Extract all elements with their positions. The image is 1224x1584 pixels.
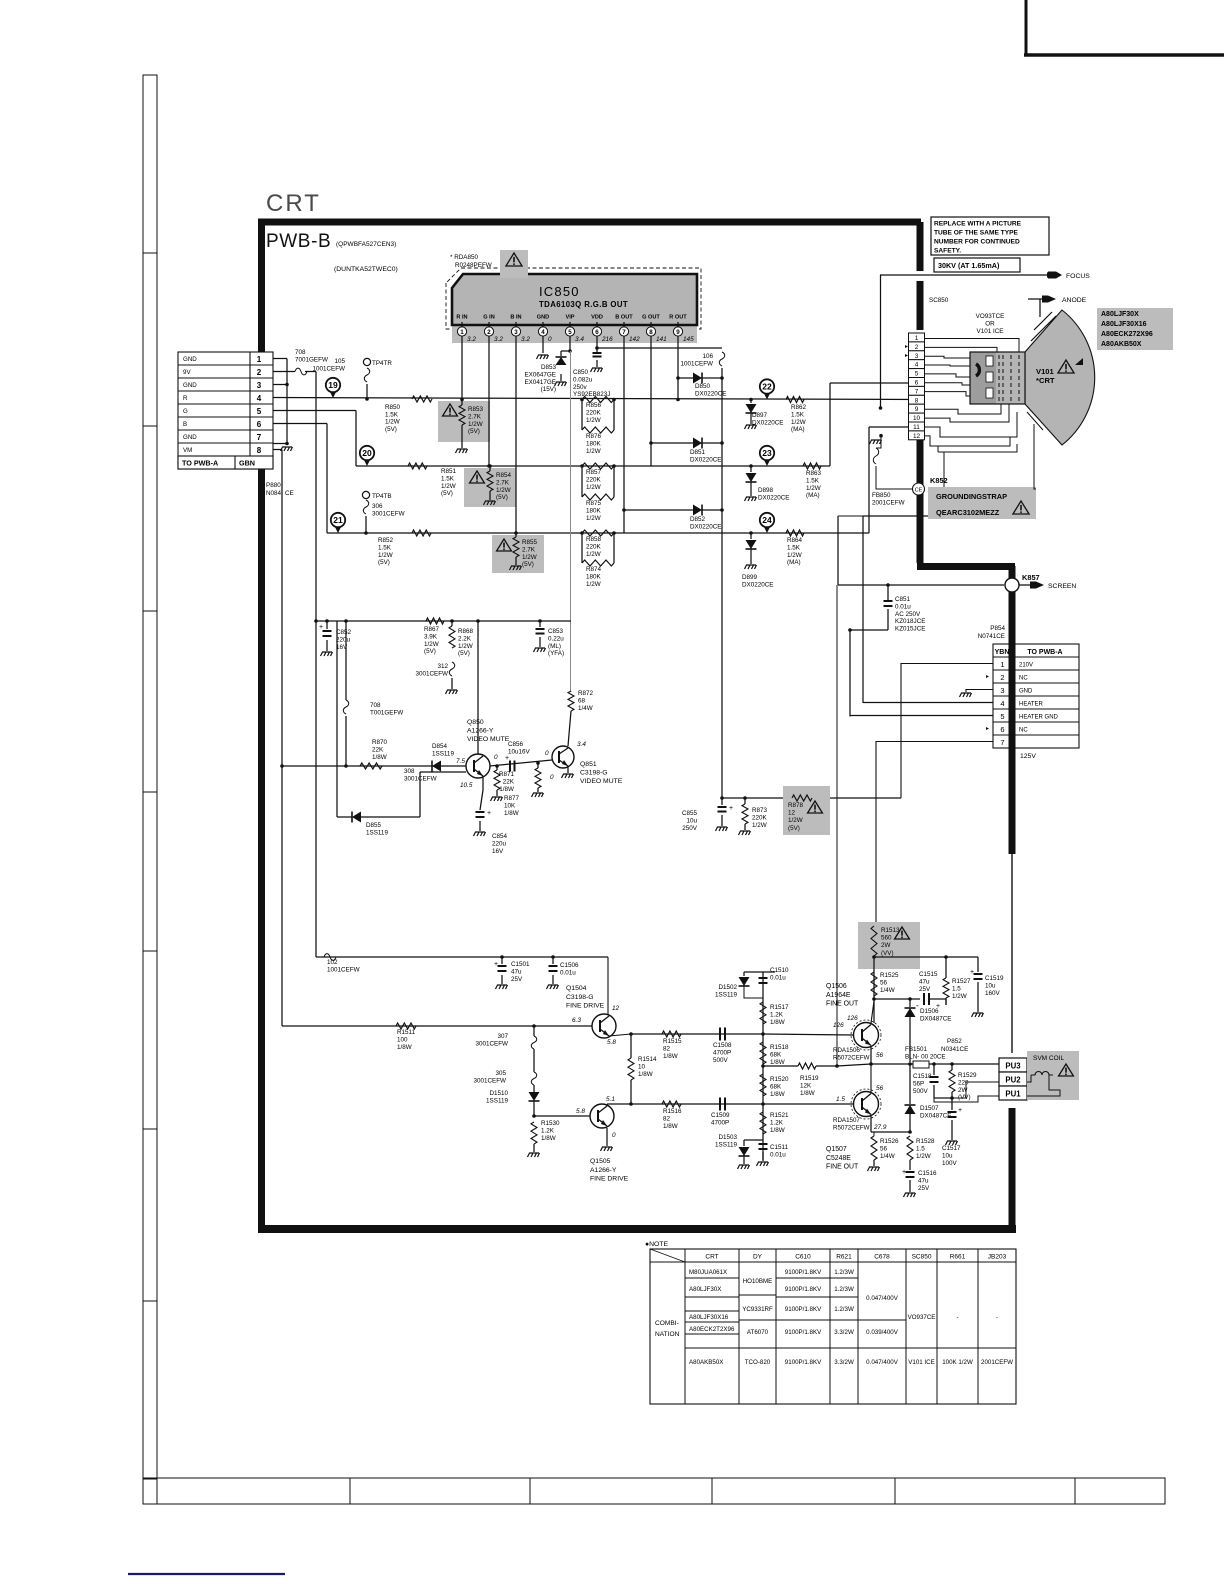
svg-text:TDA6103Q R.G.B OUT: TDA6103Q R.G.B OUT [539,300,628,309]
svg-text:TCO-820: TCO-820 [745,1359,771,1366]
wire B signal line [273,423,327,425]
svg-text:1/2W: 1/2W [586,448,601,455]
diode D899 to ground [749,531,753,535]
svg-text:2W: 2W [881,942,891,949]
svg-text:GBN: GBN [239,459,255,468]
svg-text:(15V): (15V) [541,386,556,393]
svg-text:1/2W: 1/2W [752,822,767,829]
svg-text:R1521: R1521 [770,1112,789,1119]
svg-text:D897: D897 [752,412,768,419]
svg-text:0.01u: 0.01u [770,1152,786,1159]
svg-text:24: 24 [762,515,772,525]
svg-text:3.3/2W: 3.3/2W [834,1329,854,1336]
svg-text:1/8W: 1/8W [638,1071,653,1078]
svg-text:1: 1 [257,355,262,364]
svg-text:(MA): (MA) [806,492,820,499]
svg-text:560: 560 [881,935,892,942]
svg-text:0.01u: 0.01u [560,969,576,976]
wire Q1504 emitter junction [609,1034,631,1036]
diode D851 [651,442,693,444]
svg-text:A80AKB50X: A80AKB50X [689,1359,723,1366]
svg-text:COMBI-: COMBI- [655,1320,679,1327]
svg-text:-: - [996,1314,998,1321]
wire 9V pin2 with jumper 708 [273,371,295,373]
connector P-A 8-pin table [178,352,273,469]
svg-text:A80ECK272X96: A80ECK272X96 [1101,331,1153,338]
svg-text:1/2W: 1/2W [441,483,456,490]
svg-text:3.4: 3.4 [575,336,584,343]
wire 9V rail y957 [316,956,608,958]
svg-text:NUMBER FOR CONTINUED: NUMBER FOR CONTINUED [934,239,1020,246]
svg-text:(5V): (5V) [378,559,390,566]
svg-text:220K: 220K [586,476,602,483]
svg-text:+: + [902,1169,906,1176]
svg-text:R1530: R1530 [541,1120,560,1127]
svg-text:C851: C851 [895,596,911,603]
svg-text:D1507: D1507 [920,1105,939,1112]
svg-text:10K: 10K [504,802,516,809]
svg-text:GND: GND [183,382,197,389]
svg-text:R871: R871 [499,771,515,778]
resistor R1513 caution box [858,922,920,969]
anode hatch marks [1034,312,1052,330]
svg-text:3.2: 3.2 [494,336,503,343]
svg-text:5: 5 [568,329,572,336]
wire IC pin1 R IN [461,340,463,400]
svg-text:180K: 180K [586,440,602,447]
svg-text:(MA): (MA) [791,426,805,433]
resistor R1525 [871,972,877,996]
svg-text:C3198-G: C3198-G [580,770,608,777]
svg-text:1/2W: 1/2W [791,419,806,426]
jumper 102 [324,954,336,961]
IC850 body [452,325,697,343]
svg-text:0.039/400V: 0.039/400V [866,1329,899,1336]
svg-text:* RDA850: * RDA850 [450,254,478,261]
svg-text:1/2W: 1/2W [586,417,601,424]
svg-text:10u: 10u [686,817,697,824]
svg-text:1/8W: 1/8W [663,1053,678,1060]
svg-text:25V: 25V [511,976,523,983]
text box 30KV [934,258,1020,272]
svg-text:125V: 125V [1020,753,1036,760]
svg-text:D852: D852 [690,516,706,523]
wire IC pin6 VDD [596,340,598,348]
resistor R1518 [760,1042,766,1064]
ground near strip [870,440,882,444]
svg-text:3: 3 [1000,686,1004,695]
svg-text:R IN: R IN [456,315,467,321]
svg-text:7: 7 [915,388,919,395]
svg-text:11: 11 [913,424,920,431]
resistor R1528 [907,1136,913,1160]
capacitor C850 [596,348,598,352]
wire Q851 emitter ground [567,767,569,773]
svg-text:A80ECK2T2X96: A80ECK2T2X96 [689,1326,735,1333]
wire bias bus [762,972,764,1160]
resistor R1511 [396,1023,416,1029]
wire SVM hookup [1027,1075,1031,1082]
capacitor C1515 [874,998,920,1000]
diode D1503 and C1511 [744,1139,763,1141]
note table row rules [685,1277,739,1279]
connector P854 YBN table [993,644,1079,748]
svg-text:(QPWBFA527CEN3): (QPWBFA527CEN3) [336,241,396,248]
svg-text:56: 56 [880,979,888,986]
svg-text:3001CEFW: 3001CEFW [473,1078,506,1085]
svg-text:HO10BME: HO10BME [743,1278,773,1285]
ferrite bead FB1501 [913,1061,929,1068]
svg-text:N084: N084 [266,490,282,497]
wire drive line B y1104 [607,1103,763,1105]
svg-text:R870: R870 [372,739,388,746]
svg-text:+: + [970,969,974,976]
svg-text:220K: 220K [586,409,602,416]
svg-text:250V: 250V [682,825,698,832]
svg-text:G IN: G IN [483,315,495,321]
svg-text:SC850: SC850 [929,297,949,304]
svg-text:1/8W: 1/8W [499,786,514,793]
svg-text:R877: R877 [504,795,520,802]
svg-text:FINE DRIVE: FINE DRIVE [566,1003,605,1010]
svg-text:V101 ICE: V101 ICE [977,328,1004,335]
svg-text:R661: R661 [950,1254,966,1261]
diode D1510 [533,1085,535,1092]
svg-text:(VV): (VV) [881,950,894,957]
svg-text:56: 56 [876,1085,884,1092]
svg-text:V101 ICE: V101 ICE [908,1359,934,1366]
svg-text:R857: R857 [586,469,602,476]
svg-text:0.047/400V: 0.047/400V [866,1295,899,1302]
svg-text:●NOTE: ●NOTE [645,1241,668,1248]
IC850 pins 1-9 [461,322,463,327]
wire socket nest [924,339,1020,353]
svg-text:R1525: R1525 [880,972,899,979]
svg-text:2: 2 [1000,673,1004,682]
capacitor C1506 [552,957,554,964]
capacitor C853 [539,621,541,627]
wire Q1505 emitter ground [606,1128,608,1146]
svg-text:7: 7 [622,329,626,336]
svg-text:10: 10 [638,1063,646,1070]
svg-text:1/8W: 1/8W [504,810,519,817]
svg-text:250v: 250v [573,384,588,391]
wire Q850 emitter to C854 [482,776,484,790]
svg-text:7: 7 [1000,738,1004,747]
svg-text:(5V): (5V) [788,825,800,832]
jumper 307 [533,1026,535,1036]
svg-text:3.2: 3.2 [521,336,530,343]
svg-text:K857: K857 [1022,573,1040,582]
svg-text:12K: 12K [800,1082,812,1089]
svg-text:C678: C678 [874,1254,890,1261]
node 19 flag [329,390,337,398]
svg-text:68K: 68K [770,1051,782,1058]
svg-text:0: 0 [548,336,552,343]
svg-text:M80JUA061X: M80JUA061X [689,1269,727,1276]
node 20 flag [363,458,371,466]
svg-text:1.5: 1.5 [836,1096,845,1103]
svg-text:5: 5 [1000,712,1004,721]
svg-text:2.7K: 2.7K [522,546,536,553]
svg-text:2.7K: 2.7K [496,479,510,486]
svg-text:216: 216 [601,336,613,343]
wire riser to screen grid [836,585,838,1066]
svg-text:R862: R862 [791,404,807,411]
arrows at rows 2,6 [986,675,989,678]
CRT socket [970,352,1025,404]
svg-text:GND: GND [537,315,549,321]
svg-text:1.2K: 1.2K [541,1127,555,1134]
diode D850 [678,377,693,379]
svg-text:1SS119: 1SS119 [715,992,737,999]
CRT V101 funnel [1025,310,1095,445]
svg-text:D1510: D1510 [489,1090,508,1097]
svg-text:1.5K: 1.5K [791,411,805,418]
svg-text:(YFA): (YFA) [548,650,564,657]
svg-text:K852: K852 [930,476,948,485]
svg-text:9: 9 [676,329,680,336]
svg-text:R1517: R1517 [770,1004,789,1011]
svg-text:RDA1507: RDA1507 [833,1117,860,1124]
svg-text:102: 102 [327,959,338,966]
svg-text:A1266-Y: A1266-Y [590,1167,617,1174]
svg-text:FINE OUT: FINE OUT [826,1164,859,1171]
svg-text:EX0647GE: EX0647GE [524,371,556,378]
svg-text:A80AKB50X: A80AKB50X [1101,341,1142,348]
svg-text:C856: C856 [508,741,524,748]
warning triangle V101 [1058,360,1074,373]
svg-text:23: 23 [762,448,772,458]
svg-text:82: 82 [663,1115,671,1122]
svg-text:+: + [319,624,323,631]
svg-text:A80LJF30X: A80LJF30X [689,1286,721,1293]
svg-text:12: 12 [612,1005,620,1012]
svg-text:0: 0 [494,754,498,761]
wire Q1506 collector [871,1001,874,1023]
svg-text:3001CEFW: 3001CEFW [415,671,448,678]
svg-text:(MA): (MA) [787,559,801,566]
page: bottom revision bar [143,1478,1165,1504]
svg-text:DX0220CE: DX0220CE [690,457,722,464]
svg-text:GND: GND [183,434,197,441]
svg-text:1/4W: 1/4W [880,1153,895,1160]
jumper FB850 to CE [879,434,883,438]
svg-text:TUBE OF THE SAME TYPE: TUBE OF THE SAME TYPE [934,230,1018,237]
IC850 dashed outline [446,268,701,329]
capacitor C1518 [933,1064,935,1075]
svg-text:4: 4 [257,394,262,403]
wire G signal line [273,410,356,412]
svg-text:NATION: NATION [655,1331,680,1338]
svg-text:R1528: R1528 [916,1138,935,1145]
svg-text:YC9331RF: YC9331RF [742,1306,773,1313]
svg-text:0.01u: 0.01u [770,975,786,982]
resistor R1529 [951,1064,953,1070]
wire IC pin8 G OUT [650,340,652,466]
svg-text:1/2W: 1/2W [424,641,439,648]
ground [484,501,496,505]
svg-text:308: 308 [404,768,415,775]
svg-text:7001GEFW: 7001GEFW [295,357,328,364]
svg-text:2: 2 [257,368,262,377]
svg-text:FB1501: FB1501 [905,1046,928,1053]
svg-text:47u: 47u [918,1177,929,1184]
svg-text:22: 22 [762,382,772,392]
svg-text:4: 4 [1000,699,1004,708]
resistor R867 [426,618,444,624]
node 24 flag [763,525,771,533]
svg-text:TO PWB-A: TO PWB-A [1027,649,1062,656]
svg-text:A1964E: A1964E [826,992,851,999]
svg-text:9100P/1.8KV: 9100P/1.8KV [785,1286,822,1293]
svg-text:Q1507: Q1507 [826,1146,847,1153]
svg-text:EX0417GE: EX0417GE [524,379,556,386]
svg-text:KZ015JCE: KZ015JCE [895,626,925,633]
svg-text:1/2W: 1/2W [522,554,537,561]
svg-text:220u: 220u [492,840,507,847]
svg-text:1001CEFW: 1001CEFW [680,361,713,368]
svg-text:R852: R852 [378,537,394,544]
svg-text:5.8: 5.8 [607,1039,616,1046]
wire row3 GND stub [966,690,993,693]
svg-text:R858: R858 [586,536,602,543]
capacitor C1509 [719,1098,721,1111]
test point TP4TR [363,358,370,365]
resistor R854 with caution box [464,468,516,507]
svg-text:16V: 16V [492,848,504,855]
svg-text:1.2K: 1.2K [770,1119,784,1126]
transistor Q1505 fine drive [590,1104,614,1128]
resistor R872 [570,690,572,693]
wire 9V rail y621 [316,620,571,622]
svg-text:56: 56 [876,1052,884,1059]
svg-text:C853: C853 [548,628,564,635]
svg-text:SCREEN: SCREEN [1048,583,1076,590]
wire GND bus pins 1,3,7 [273,358,287,360]
svg-text:R868: R868 [458,628,474,635]
resistor R871 [537,763,539,768]
svg-text:1.5K: 1.5K [385,411,399,418]
svg-text:1.5K: 1.5K [787,544,801,551]
diode D897 to ground [749,398,753,402]
svg-text:9100P/1.8KV: 9100P/1.8KV [785,1306,822,1313]
svg-text:(ML): (ML) [548,643,561,650]
svg-text:1/2W: 1/2W [586,581,601,588]
svg-text:C5248E: C5248E [826,1155,851,1162]
svg-text:-: - [916,1001,919,1010]
svg-text:(5V): (5V) [468,428,480,435]
capacitor C851 [887,585,889,600]
svg-text:FINE OUT: FINE OUT [826,1001,859,1008]
svg-text:D850: D850 [695,383,711,390]
svg-text:TP4TB: TP4TB [372,493,392,500]
svg-text:100K 1/2W: 100K 1/2W [942,1359,973,1366]
resistor R851 [408,463,427,469]
svg-text:BLN- 00 20CE: BLN- 00 20CE [905,1054,946,1061]
transistor Q1506 fine out [854,1023,879,1048]
svg-text:5: 5 [257,407,262,416]
svg-text:D854: D854 [432,743,448,750]
wire Q1507 emitter [870,1116,872,1132]
svg-text:C1508: C1508 [713,1042,732,1049]
svg-text:R621: R621 [836,1254,852,1261]
svg-text:160V: 160V [985,990,1001,997]
ground [281,447,293,451]
svg-text:GND: GND [1019,689,1033,695]
svg-text:R863: R863 [806,470,822,477]
resistor R850 [412,396,432,402]
svg-text:R5072CEFW: R5072CEFW [833,1125,870,1132]
svg-text:VM: VM [183,447,192,454]
svg-text:DX0487CE: DX0487CE [920,1016,952,1023]
svg-text:7: 7 [257,433,262,442]
svg-text:NC: NC [1019,728,1028,734]
svg-text:180K: 180K [586,507,602,514]
svg-text:9100P/1.8KV: 9100P/1.8KV [785,1329,822,1336]
wire Q850 collector [477,621,479,754]
svg-text:R853: R853 [468,406,484,413]
resistor R1517 [760,1002,766,1024]
svg-text:1/8W: 1/8W [663,1123,678,1130]
svg-text:56: 56 [880,1145,888,1152]
svg-text:R1515: R1515 [663,1038,682,1045]
svg-text:DX0220CE: DX0220CE [752,420,784,427]
connector P852 PU boxes [999,1058,1027,1072]
svg-text:2.7K: 2.7K [468,413,482,420]
svg-text:1.5K: 1.5K [806,477,820,484]
svg-text:(5V): (5V) [458,650,470,657]
svg-text:P852: P852 [947,1038,962,1045]
grounding strap node K852 CE [913,483,925,495]
svg-text:N0341CE: N0341CE [941,1046,968,1053]
svg-text:B: B [183,421,187,428]
svg-text:T001GEFW: T001GEFW [370,710,403,717]
wire focus line [880,274,1051,276]
resistor R877 [496,766,498,770]
jumper 708b [345,621,347,700]
zener D853 [561,350,570,352]
wire C1519 branch [946,956,978,958]
wire R1513 column [873,956,875,1023]
wire mute base line y766 [282,765,466,767]
page: top-right corner frame [1025,0,1028,56]
svg-text:R: R [183,395,188,402]
svg-text:100V: 100V [942,1160,958,1167]
svg-text:DX0220CE: DX0220CE [742,582,774,589]
PWB-B board outline left edge [258,219,265,1231]
svg-text:5: 5 [915,371,919,378]
svg-text:PU1: PU1 [1005,1090,1021,1099]
svg-text:D851: D851 [690,449,706,456]
resistor R868 [450,619,454,623]
svg-text:(5V): (5V) [441,490,453,497]
resistor pair R857/R875 [580,464,584,468]
wire row4 HEATER [863,702,993,704]
svg-text:1/2W: 1/2W [378,552,393,559]
svg-text:Q850: Q850 [467,719,484,726]
svg-text:R856: R856 [586,402,602,409]
svg-text:1/2W: 1/2W [458,643,473,650]
svg-text:KZ018JCE: KZ018JCE [895,618,925,625]
svg-text:NC: NC [1019,676,1028,682]
svg-text:VIDEO MUTE: VIDEO MUTE [467,736,510,743]
svg-text:20: 20 [362,448,372,458]
svg-text:R876: R876 [586,433,602,440]
svg-text:PU2: PU2 [1005,1076,1021,1085]
svg-text:3: 3 [257,381,262,390]
note table diagonal [650,1249,685,1262]
